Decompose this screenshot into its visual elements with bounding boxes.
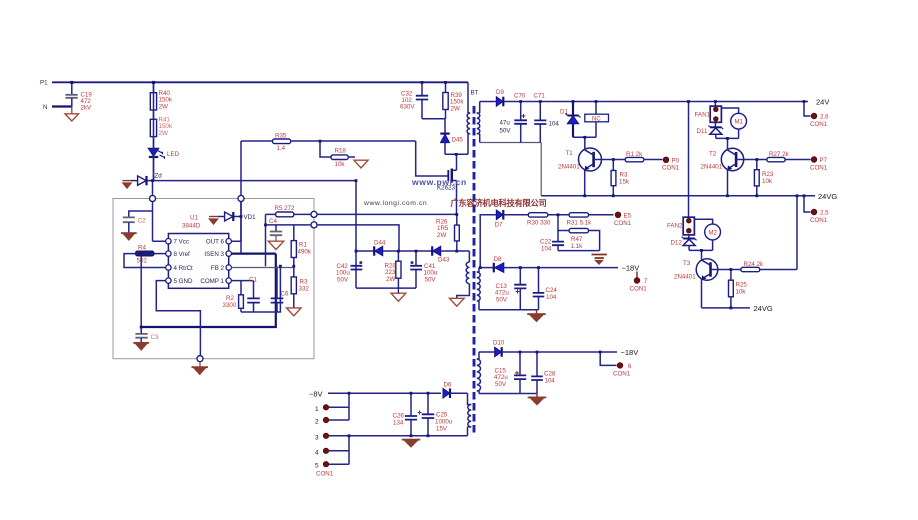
svg-text:Zd: Zd [155,173,163,180]
capacitor C42 [336,261,362,283]
capacitor C13 electrolytic [495,268,526,310]
resistor R47 1.1k [558,215,600,251]
connector stub 2.6 CON1 [804,102,829,129]
svg-text:T2: T2 [709,151,717,158]
svg-text:104: 104 [549,121,560,128]
node circle on box top edge (Vcc entry) [150,196,156,202]
wire MOSFET source down to sense node [456,181,458,215]
diode D6 [443,382,468,399]
svg-text:CON1: CON1 [810,121,828,128]
svg-text:332: 332 [299,286,310,293]
svg-text:D43: D43 [438,257,450,264]
svg-text:2W: 2W [451,105,460,112]
module boundary box (gray) [113,199,314,359]
resistor R3 332 [291,266,309,307]
svg-text:FB 2: FB 2 [211,265,225,272]
svg-text:C26: C26 [393,413,405,420]
wire Zd node to aux rail (long horizontal to x356) [153,180,357,182]
wire ISEN return (thick) COMP/C3 rail [141,254,276,327]
fan FAN2 [667,217,694,235]
capacitor C22 104 [540,231,564,253]
resistor R5 272 [275,205,312,217]
svg-text:VD1: VD1 [244,214,257,221]
LED indicator diode [148,137,179,181]
connector CON1 pin 5 [315,462,349,470]
diode D44 [356,240,432,256]
pin 8 Vref [166,251,171,256]
resistor R3 15k [611,160,630,196]
svg-text:6: 6 [628,363,632,370]
svg-text:FAN1: FAN1 [695,112,711,119]
svg-text:630V: 630V [400,104,415,111]
wire -8V return rail [328,435,468,437]
resistor R30 330 [527,213,569,227]
wire 24V return rail [480,143,542,196]
zener diode D12 [671,235,697,251]
svg-text:2W: 2W [159,103,168,110]
capacitor C1 [247,277,260,313]
wire ISEN sense line to source resistor [317,213,457,215]
ground below R3 [287,308,302,316]
capacitor C19 [65,82,92,111]
diode D10 [479,340,617,357]
svg-text:OUT 6: OUT 6 [206,239,225,246]
ground below C19 [65,107,79,122]
connector pin E5 [614,212,632,227]
svg-text:C25: C25 [436,412,448,419]
capacitor C41 [410,251,438,288]
connector stub 7 CON1 [630,272,649,293]
wire Rt/Ct node down to C3 [140,256,142,327]
junction on HV rail [152,81,155,84]
capacitor C28 104 [531,352,556,394]
capacitor C3 [135,327,159,342]
svg-text:R3: R3 [620,172,628,179]
svg-text:−18V: −18V [622,264,640,273]
svg-text:R1 2k: R1 2k [626,151,643,158]
resistor R35 [241,133,416,153]
svg-text:R5 272: R5 272 [275,205,296,212]
svg-text:www.pwl.cn: www.pwl.cn [411,177,467,187]
capacitor C32 snubber [400,82,428,119]
pin 6 OUT [226,239,231,244]
svg-text:47u: 47u [500,120,511,127]
svg-text:24VG: 24VG [818,192,837,201]
svg-text:D45: D45 [452,137,464,144]
wire MOSFET drain up [456,154,458,170]
wire C4 row [266,224,312,226]
svg-text:2N4401: 2N4401 [674,274,696,281]
svg-text:24V: 24V [816,98,829,107]
svg-text:C3: C3 [151,334,159,341]
node circle box right edge (C4 row) [311,222,317,228]
svg-text:C70: C70 [514,93,526,100]
svg-text:BT: BT [471,90,479,97]
wire aux bottom rail [356,287,416,289]
pin 5 GND [166,278,171,283]
ground right of R18 [354,160,368,168]
svg-text:24VG: 24VG [754,304,773,313]
pin 2 FB [226,265,231,270]
resistor R4 [136,245,166,265]
svg-text:−8V: −8V [309,390,323,399]
svg-text:P7: P7 [820,157,828,164]
capacitor C15 electrolytic [494,352,526,394]
svg-text:50V: 50V [425,276,437,283]
svg-text:D11: D11 [697,128,708,135]
svg-text:R35: R35 [275,133,287,140]
op-amp U1 PWM controller 3844D body [168,215,228,289]
connector stub 6 CON1 [600,352,632,378]
wire comp network bottom rail to FB [241,266,280,312]
svg-text:1: 1 [315,406,319,413]
svg-text:5: 5 [315,463,319,470]
ground below C4 [268,241,283,249]
svg-text:www.longi.com.cn: www.longi.com.cn [363,200,427,207]
svg-text:T3: T3 [683,260,691,267]
wire COMP row [231,280,253,282]
svg-text:15k: 15k [619,179,630,186]
svg-text:N: N [43,104,47,111]
connector CON1 pin 3 [315,433,349,441]
svg-text:P1: P1 [40,80,48,87]
resistor R25 10k [729,270,748,308]
transformer core (dashed) [473,106,476,433]
diode VD1 [209,202,256,254]
resistor R26 1R5 2W current sense [436,214,459,251]
wire D1/NC bottom join to T1 collector [573,137,596,148]
svg-text:2.5: 2.5 [820,210,829,217]
transistor Q1 MOSFET K2623 [437,169,457,192]
svg-text:1.1k: 1.1k [571,243,584,250]
wire 24V feed to FAN2 branch (crosses 24VG) [688,102,690,218]
svg-text:R23: R23 [762,171,774,178]
svg-text:2N4401: 2N4401 [701,164,723,171]
svg-text:D12: D12 [671,240,683,247]
transistor T3 2N4401 [674,259,718,308]
svg-text:D9: D9 [496,89,504,96]
resistor R27 2k [757,151,811,162]
wire top HV rail [52,81,468,83]
relay coil NC [585,102,609,138]
wire R5 row from vertical tap [266,214,276,266]
capacitor C25 1000u electrolytic [418,393,453,436]
svg-text:R27 2k: R27 2k [769,151,790,158]
svg-text:CON1: CON1 [316,471,334,478]
wire neutral [52,105,72,107]
svg-text:50V: 50V [495,381,507,388]
connector CON1 pin 1 [315,393,349,420]
svg-text:R24 2k: R24 2k [744,261,765,268]
transformer 18V winding B [477,352,481,394]
transformer aux feedback winding [441,251,470,298]
svg-text:C6: C6 [281,291,289,298]
svg-text:C24: C24 [546,287,558,294]
svg-text:CON1: CON1 [810,217,828,224]
svg-text:COMP 1: COMP 1 [200,278,224,285]
ground 18V-B [528,394,547,405]
svg-text:7 Vcc: 7 Vcc [174,239,189,246]
resistor R41 [150,110,173,137]
svg-text:134: 134 [393,420,404,427]
svg-text:4 Rt/Ct: 4 Rt/Ct [174,265,194,272]
svg-text:50V: 50V [337,276,349,283]
wire OUT to vertical riser [231,141,241,241]
resistor R18 10k [320,141,355,168]
resistor R23 10k [754,160,774,196]
svg-text:M1: M1 [735,120,744,126]
svg-text:C28: C28 [544,371,556,378]
pin 3 ISEN [226,251,231,256]
wire 18V-B bottom rail [479,393,537,395]
zener diode D1 [560,102,581,138]
resistor R31 5.1k [567,213,614,227]
diode D9 [480,89,808,106]
ground E5 network [592,255,607,265]
svg-text:−18V: −18V [621,348,639,357]
wire FB row [231,267,293,269]
svg-text:CON1: CON1 [662,165,680,172]
svg-text:C22: C22 [540,239,552,246]
transistor T2 2N4401 [701,148,744,196]
svg-text:15V: 15V [436,426,448,433]
svg-text:8 Vref: 8 Vref [174,251,191,258]
node circle on box bottom edge (GND) [197,356,203,362]
svg-text:10k: 10k [335,161,346,168]
transformer 24V secondary winding [477,102,480,143]
wire R47/C22 bottom to ground [558,250,600,252]
connector pin P0 [662,157,680,172]
capacitor C6 [271,266,289,312]
resistor R40 [150,82,173,110]
wire R4 loop to pin 4 [124,254,166,268]
svg-text:10k: 10k [762,178,773,185]
svg-text:R3: R3 [300,279,308,286]
svg-text:LED: LED [167,151,180,158]
svg-text:C2: C2 [138,218,146,225]
capacitor C2 [123,211,153,233]
diode D45 [440,119,463,155]
ground below C2 [123,233,136,240]
ground 18V-A [527,310,546,322]
svg-text:E5: E5 [624,212,632,219]
svg-text:7: 7 [644,278,648,285]
capacitor C24 104 [533,268,558,310]
svg-text:1.4: 1.4 [277,145,286,152]
motor M1 [721,108,746,138]
svg-text:5 GND: 5 GND [174,278,193,285]
wire pin5 GND path [156,281,200,356]
connector pin P7 [810,157,828,172]
ground below box [193,367,206,374]
wire FAN2 bottom join to T3 collector [689,250,713,259]
svg-text:3844D: 3844D [182,223,201,230]
wire snubber bottom rail [422,118,446,120]
pin 7 Vcc [166,239,171,244]
svg-text:104: 104 [546,294,557,301]
svg-text:FAN2: FAN2 [667,223,683,230]
connector stub 2.5 CON1 [804,196,829,224]
svg-text:C4: C4 [269,218,277,225]
svg-text:3: 3 [315,434,319,441]
wire T2 base node [736,159,757,161]
svg-text:M2: M2 [709,231,718,237]
wire T1 base to node [594,159,614,161]
svg-text:2W: 2W [386,276,395,283]
wire aux rail corner down from Zd line [355,181,357,289]
wire 24VG rail [541,195,815,197]
fan FAN1 [695,102,722,123]
diode D43 [432,246,450,263]
ground below aux winding [450,298,465,306]
capacitor C26 134 [393,393,418,436]
transformer -8V winding [468,393,472,436]
svg-text:4: 4 [315,449,319,456]
wire T3 base node [711,269,731,271]
resistor R1 490k [291,225,312,266]
svg-text:50V: 50V [500,128,512,135]
svg-text:C71: C71 [534,93,546,100]
wire gate drive to MOSFET [416,141,449,176]
svg-text:NC: NC [592,116,601,122]
wire -8V rail [328,392,441,394]
resistor R24 2k [731,196,797,272]
svg-text:CON1: CON1 [613,371,631,378]
svg-text:CON1: CON1 [630,286,648,293]
svg-text:R30 330: R30 330 [527,220,551,227]
svg-text:CON1: CON1 [810,165,828,172]
zener diode Zd [123,173,163,189]
svg-text:104: 104 [541,246,552,253]
svg-text:2W: 2W [159,130,168,137]
svg-text:R31 5.1k: R31 5.1k [567,220,593,227]
ground -8V [402,439,421,447]
wire Vcc aux line to D44 node [317,225,399,251]
svg-text:2N4401: 2N4401 [558,164,580,171]
svg-text:广东容济机电科技有限公司: 广东容济机电科技有限公司 [451,198,547,208]
svg-text:R47: R47 [571,236,583,243]
connector CON1 pin 2 [315,417,349,425]
transistor T1 2N4401 [558,148,602,196]
ground below aux rail [391,293,406,301]
svg-text:ISEN 3: ISEN 3 [204,251,224,258]
svg-text:CON1: CON1 [614,220,632,227]
svg-text:10k: 10k [736,289,747,296]
ground below C3 [135,343,148,350]
node circles overlay (redrawn above wires) [150,196,156,202]
svg-text:U1: U1 [190,215,198,222]
transformer BT primary winding [467,82,479,154]
capacitor C71 104 [534,93,560,143]
svg-text:P0: P0 [672,157,680,164]
resistor R2 3300 [223,281,244,312]
svg-text:104: 104 [545,378,556,385]
connector CON1 pin 4 [315,436,349,464]
svg-text:D8: D8 [494,256,502,263]
capacitor C4 [269,218,282,241]
svg-text:2: 2 [315,419,319,426]
svg-text:R25: R25 [736,282,748,289]
node circle on box top edge (OUT exit) [238,196,244,202]
svg-text:D10: D10 [493,340,505,347]
wire E5 row feed [480,215,496,268]
wire FAN1 bottom join to T2 collector [716,138,739,148]
diode D8 [479,256,618,272]
svg-text:490k: 490k [298,249,312,256]
svg-text:50V: 50V [496,296,508,303]
zener diode D11 [697,122,724,138]
svg-text:D7: D7 [495,222,503,229]
wire 18V-A bottom rail [479,309,539,311]
capacitor C70 electrolytic 47u 50V [500,93,528,143]
svg-text:3300: 3300 [223,302,237,309]
svg-text:C1: C1 [249,277,257,284]
svg-text:1000u: 1000u [435,419,453,426]
node circle box right edge (R5 row) [311,211,317,217]
wire drain node rail [445,153,468,155]
svg-text:R1: R1 [299,242,307,249]
resistor R1 2k [613,151,662,162]
svg-text:2.6: 2.6 [820,114,829,121]
resistor R28 223 2W [385,251,402,288]
svg-text:R4: R4 [138,245,146,252]
motor M2 [694,219,720,250]
svg-text:2W: 2W [437,232,446,239]
svg-text:T1: T1 [566,150,574,157]
wire main vertical from HV rail to U1 Vcc [153,82,166,241]
resistor R39 150k snubber [443,82,465,119]
pin 1 COMP [226,278,231,283]
diode D7 [495,210,529,229]
pin 4 Rt/Ct [166,265,171,270]
svg-text:D6: D6 [444,382,452,389]
wire T3 emitter rail [702,307,751,309]
svg-text:D44: D44 [374,240,386,247]
svg-text:2kV: 2kV [81,105,93,112]
svg-text:R18: R18 [335,148,347,155]
transformer 18V winding A [477,268,480,310]
